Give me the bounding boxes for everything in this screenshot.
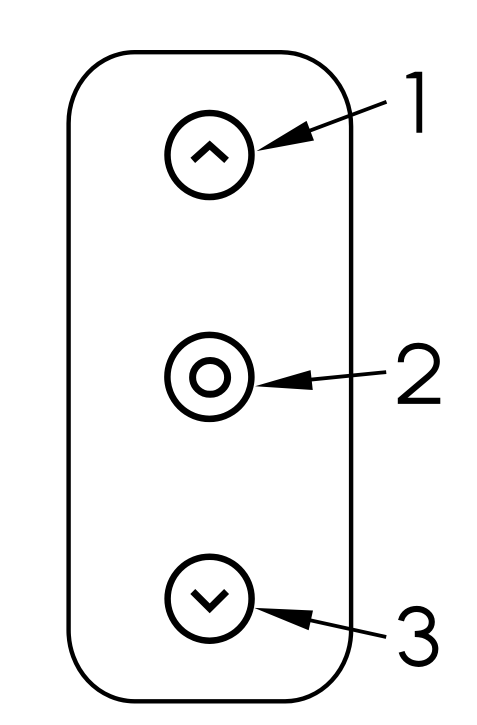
button 3: down button circle [168, 557, 252, 641]
leader arrowhead 3 [254, 608, 313, 630]
leader arrowhead 1 [257, 121, 315, 151]
label 3 (digit drawn as path) [401, 609, 435, 664]
label 2 (digit base bar) [398, 398, 441, 404]
label 2 (digit bowl and diagonal) [400, 346, 436, 400]
button 2: middle button circle [167, 335, 251, 419]
button 1: up chevron icon [193, 145, 227, 160]
panel outline (rounded rectangle) [69, 52, 352, 701]
leader line to label 2 [290, 372, 386, 382]
leader arrowhead 2 [255, 370, 313, 390]
leader line to label 3 [290, 616, 386, 637]
button 3: down chevron icon [193, 592, 227, 609]
button 1: up button circle [168, 113, 252, 197]
leader line to label 1 [290, 102, 387, 138]
label 1 (digit drawn as path) [406, 72, 422, 133]
button 2: ring icon [193, 361, 228, 395]
